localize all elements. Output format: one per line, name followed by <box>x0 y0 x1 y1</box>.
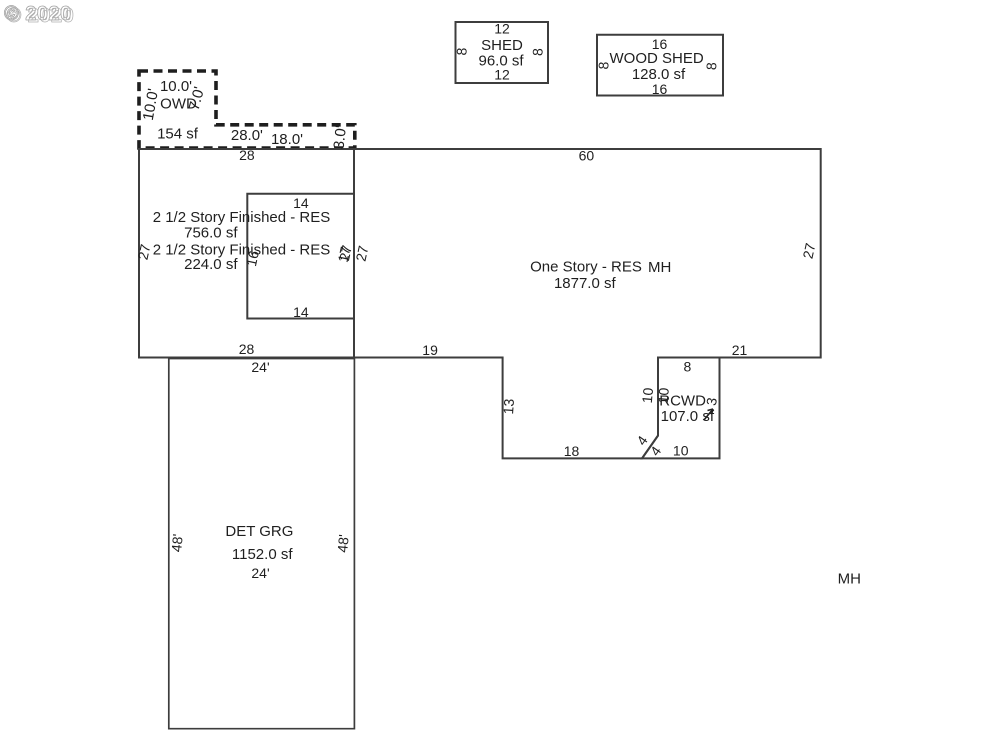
svg-text:8: 8 <box>703 62 719 71</box>
svg-text:12: 12 <box>494 21 510 37</box>
svg-text:10.0': 10.0' <box>140 87 162 122</box>
svg-text:16: 16 <box>652 81 668 97</box>
svg-text:One Story - RES: One Story - RES <box>530 259 642 276</box>
svg-text:8: 8 <box>684 359 692 375</box>
svg-text:24': 24' <box>251 359 269 375</box>
svg-text:27: 27 <box>353 244 372 263</box>
svg-text:14: 14 <box>293 304 309 320</box>
svg-text:10.0': 10.0' <box>160 78 192 95</box>
svg-text:2 1/2 Story Finished - RES: 2 1/2 Story Finished - RES <box>153 209 331 226</box>
svg-text:WOOD SHED: WOOD SHED <box>610 50 704 67</box>
svg-text:8: 8 <box>529 48 545 57</box>
svg-text:13: 13 <box>500 398 517 415</box>
svg-text:18: 18 <box>564 443 580 459</box>
svg-text:12: 12 <box>494 67 510 83</box>
svg-text:1152.0 sf: 1152.0 sf <box>232 546 293 563</box>
svg-text:3.0': 3.0' <box>331 125 350 150</box>
svg-text:21: 21 <box>732 342 748 358</box>
svg-text:60: 60 <box>579 148 595 164</box>
svg-text:48': 48' <box>168 533 186 553</box>
svg-text:DET GRG: DET GRG <box>225 523 293 540</box>
svg-text:10: 10 <box>639 387 656 404</box>
svg-text:RCWD: RCWD <box>659 393 706 410</box>
svg-text:224.0 sf: 224.0 sf <box>184 256 238 273</box>
svg-text:1877.0 sf: 1877.0 sf <box>554 275 617 292</box>
svg-text:28.0': 28.0' <box>231 127 263 144</box>
svg-text:19: 19 <box>422 342 438 358</box>
svg-text:27: 27 <box>800 241 819 260</box>
svg-text:4: 4 <box>647 443 665 459</box>
svg-text:SHED: SHED <box>481 37 523 54</box>
svg-text:24': 24' <box>251 565 269 581</box>
svg-text:10: 10 <box>673 443 689 459</box>
svg-text:8: 8 <box>595 61 611 70</box>
svg-text:154 sf: 154 sf <box>157 126 199 143</box>
svg-text:18.0': 18.0' <box>271 131 303 148</box>
svg-text:28: 28 <box>239 147 255 163</box>
svg-text:27: 27 <box>135 243 154 262</box>
svg-text:MH: MH <box>648 259 671 276</box>
svg-text:2 1/2 Story Finished - RES: 2 1/2 Story Finished - RES <box>153 242 331 259</box>
svg-text:MH: MH <box>838 571 861 588</box>
svg-text:8: 8 <box>453 47 469 56</box>
svg-text:48': 48' <box>334 534 352 554</box>
svg-text:28: 28 <box>239 341 255 357</box>
svg-text:756.0 sf: 756.0 sf <box>184 225 238 242</box>
